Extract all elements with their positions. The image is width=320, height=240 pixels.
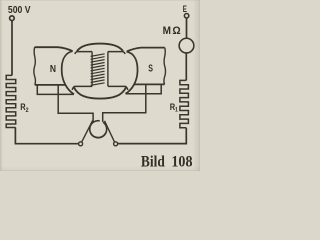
- terminal E: [184, 14, 188, 18]
- svg-text:M: M: [163, 26, 172, 37]
- terminal (right pivot): [114, 142, 118, 146]
- svg-text:Ω: Ω: [172, 25, 181, 37]
- magnet S: [127, 48, 165, 52]
- wire: [11, 21, 13, 76]
- resistor R1: [180, 80, 189, 127]
- wire: [118, 128, 187, 144]
- svg-text:N: N: [50, 63, 56, 74]
- node: frame left lower: [37, 85, 74, 94]
- yoke left: [58, 85, 93, 122]
- lead to right pivot: [105, 121, 115, 142]
- page edge shading: [193, 0, 200, 171]
- wire: [15, 128, 78, 144]
- resistor R2: [6, 75, 16, 127]
- coil core bottom flange: [74, 87, 126, 99]
- terminal 500V: [10, 16, 15, 21]
- paper background: [0, 0, 200, 171]
- wire: [185, 53, 187, 80]
- svg-text:S: S: [148, 62, 153, 73]
- coil core stem: [92, 52, 108, 87]
- yoke right: [103, 84, 146, 122]
- spring right: [91, 122, 107, 137]
- pole piece left: [62, 51, 74, 94]
- svg-text:E: E: [183, 4, 187, 15]
- galvanometer meter: [179, 38, 194, 53]
- terminal (left pivot): [79, 142, 83, 146]
- wire: [186, 18, 188, 38]
- svg-text:500 V: 500 V: [8, 4, 31, 16]
- spring left: [90, 121, 106, 138]
- node: frame right lower: [126, 84, 162, 93]
- lead to left pivot: [82, 121, 93, 143]
- coil winding: [91, 54, 105, 86]
- coil core top flange: [77, 44, 123, 52]
- pole piece right: [125, 52, 137, 94]
- magnet N: [35, 47, 73, 51]
